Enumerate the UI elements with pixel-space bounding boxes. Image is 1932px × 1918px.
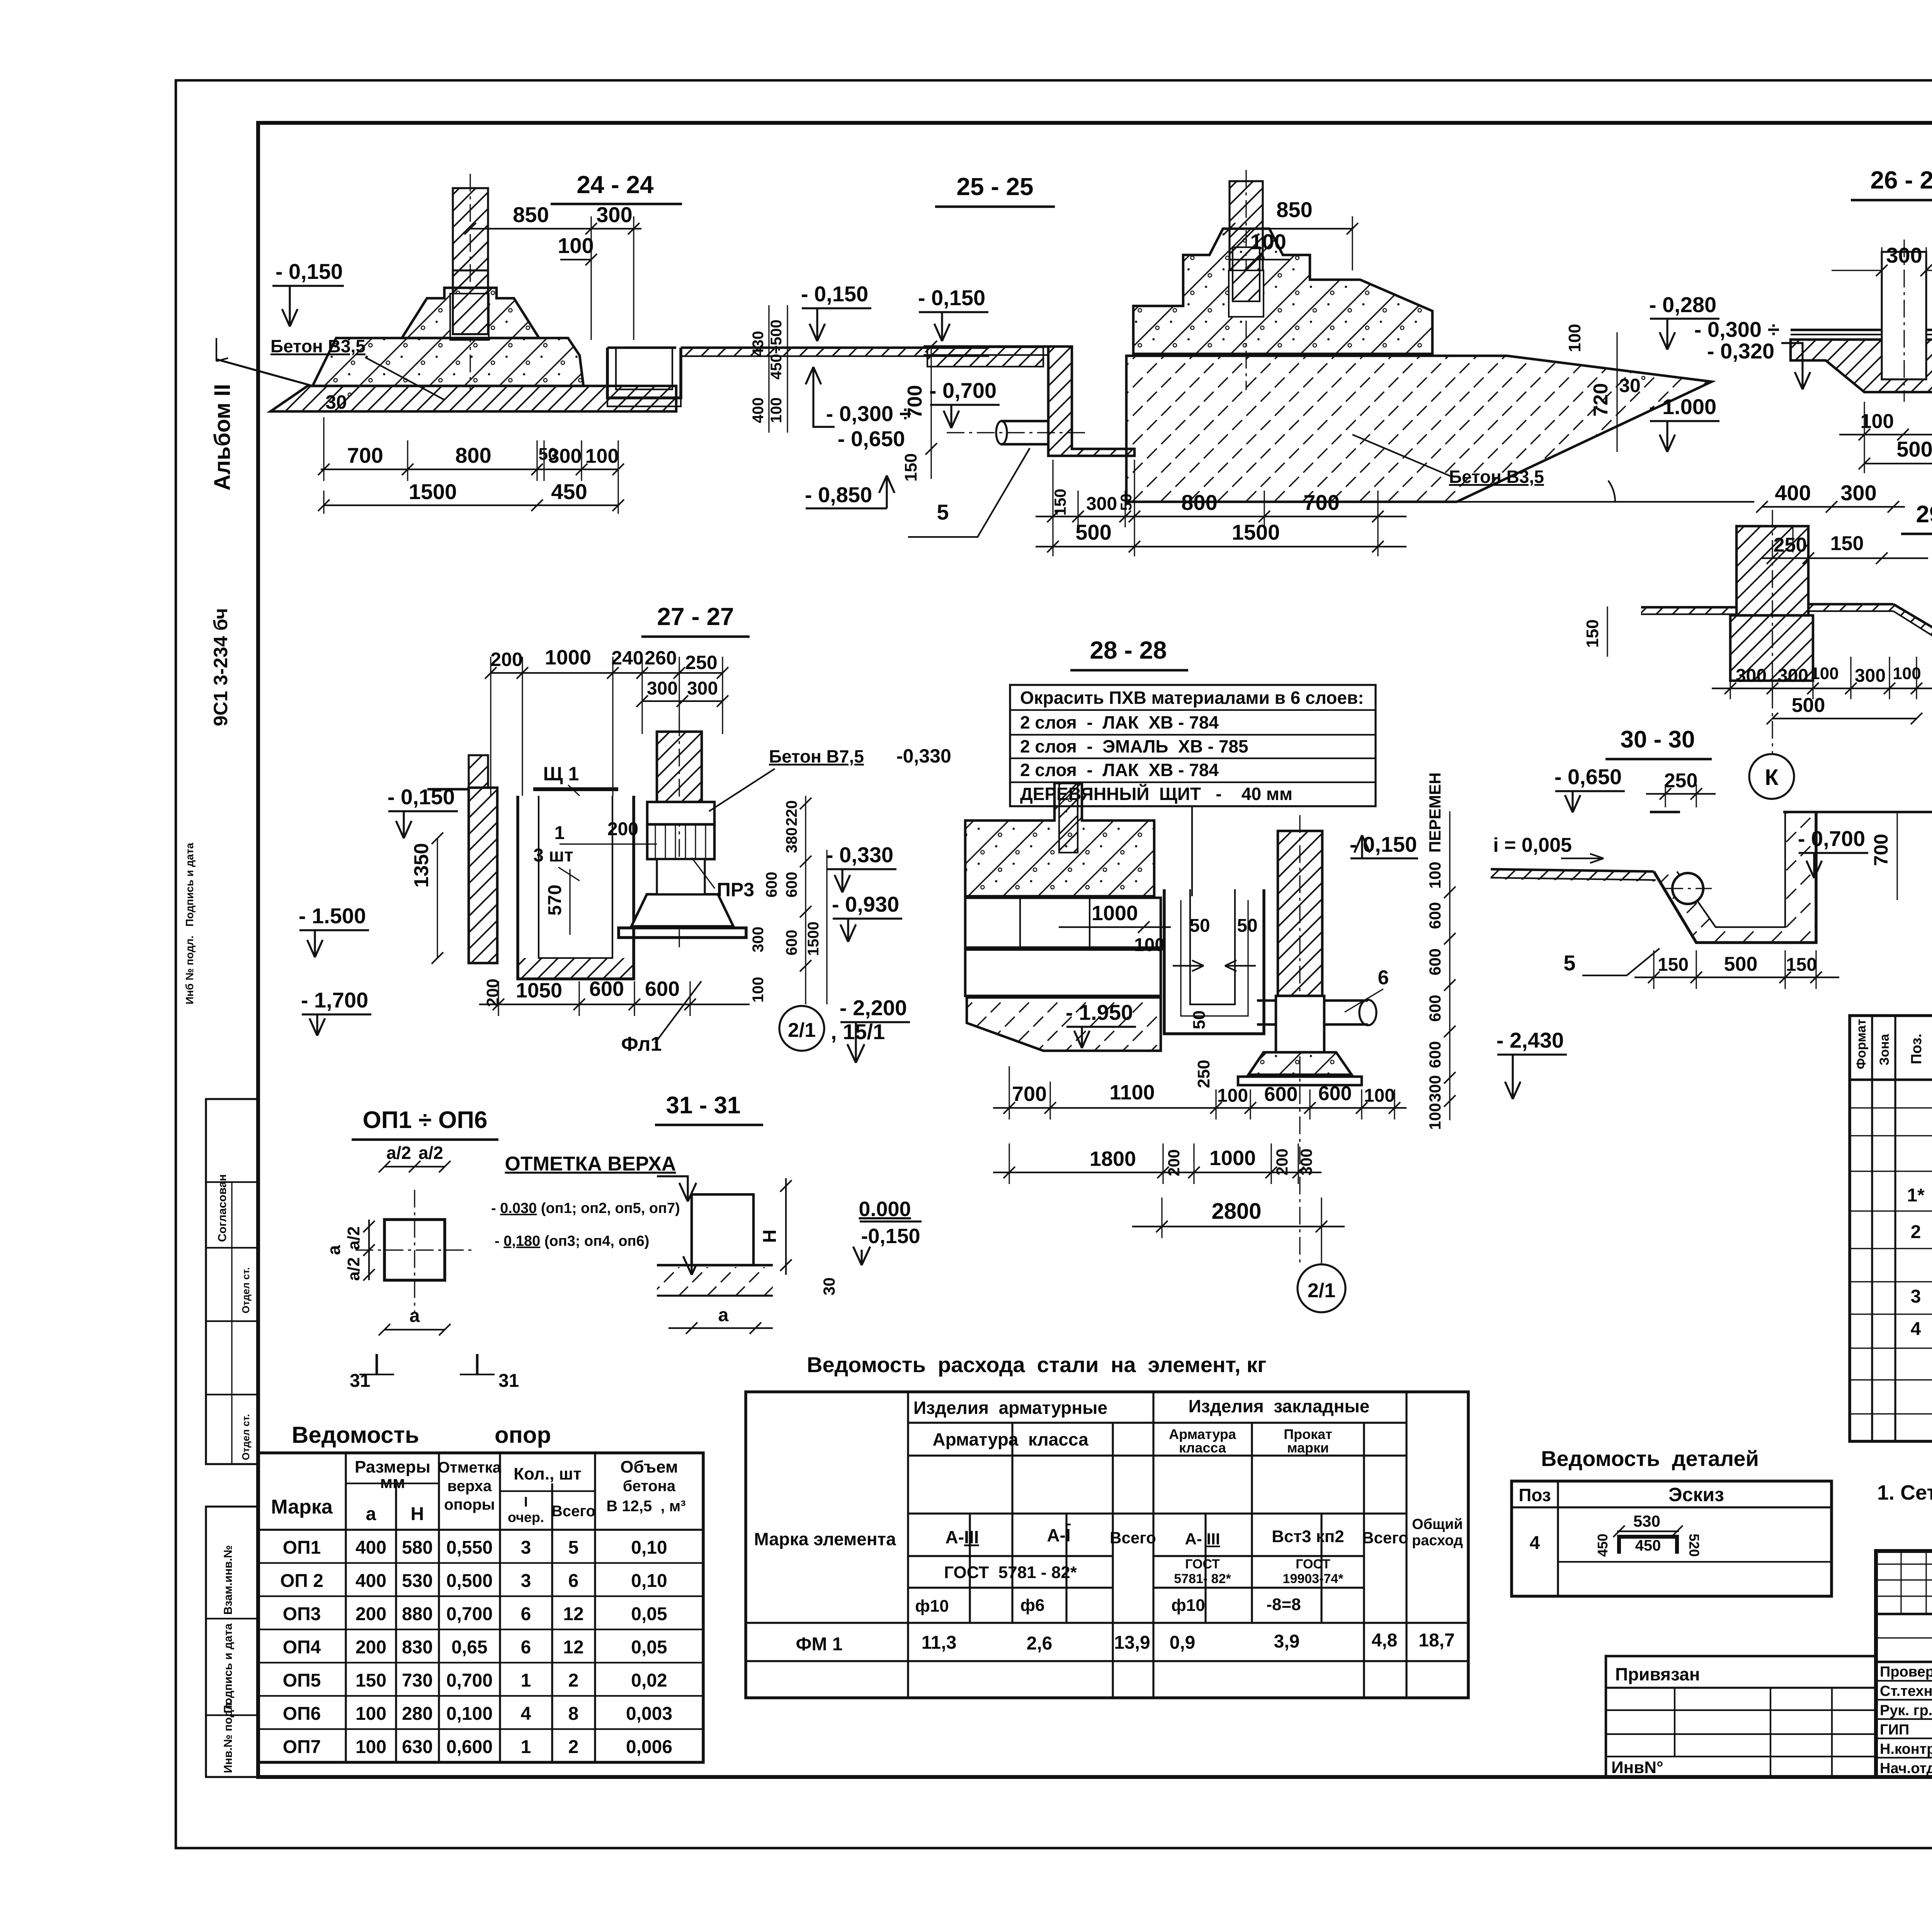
- svg-text:А-I: А-I: [1047, 1525, 1070, 1545]
- svg-text:2: 2: [568, 1670, 579, 1691]
- svg-text:Поз: Поз: [1519, 1485, 1551, 1505]
- svg-text:3: 3: [1911, 1286, 1921, 1307]
- svg-text:a: a: [410, 1306, 420, 1326]
- svg-text:300: 300: [1886, 243, 1922, 267]
- svg-text:260: 260: [645, 647, 677, 669]
- svg-text:Отдел ст.: Отдел ст.: [240, 1267, 252, 1313]
- svg-text:ОП5: ОП5: [283, 1670, 321, 1691]
- svg-text:- 0,650: - 0,650: [1554, 764, 1622, 789]
- svg-text:100: 100: [355, 1737, 386, 1757]
- svg-text:2: 2: [1911, 1222, 1921, 1242]
- svg-text:200: 200: [490, 649, 522, 670]
- svg-text:700: 700: [347, 443, 383, 467]
- svg-text:Инб № подл. Подпись и дата: Инб № подл. Подпись и дата: [184, 843, 196, 1004]
- svg-text:4,8: 4,8: [1372, 1630, 1398, 1651]
- svg-text:- 0,150: - 0,150: [918, 285, 985, 310]
- svg-text:30: 30: [325, 391, 347, 413]
- svg-text:ИнвN°: ИнвN°: [1611, 1758, 1663, 1777]
- svg-text:2,6: 2,6: [1027, 1633, 1053, 1654]
- svg-text:530: 530: [1633, 1512, 1660, 1530]
- svg-text:ОП1 ÷ ОП6: ОП1 ÷ ОП6: [362, 1107, 487, 1133]
- svg-text:0,600: 0,600: [446, 1737, 493, 1757]
- svg-text:0,500: 0,500: [446, 1571, 493, 1591]
- svg-text:600: 600: [1264, 1083, 1298, 1106]
- svg-text:0,10: 0,10: [631, 1537, 667, 1558]
- svg-text:a: a: [718, 1305, 729, 1325]
- svg-text:530: 530: [402, 1571, 433, 1591]
- svg-text:25 - 25: 25 - 25: [956, 173, 1033, 200]
- svg-text:300: 300: [750, 927, 767, 953]
- svg-text:100: 100: [1893, 664, 1921, 683]
- svg-text:300: 300: [1840, 481, 1876, 505]
- svg-text:Бетон В3,5: Бетон В3,5: [270, 336, 366, 356]
- svg-text:600: 600: [763, 872, 780, 898]
- svg-text:Взам.инв.№: Взам.инв.№: [222, 1545, 235, 1615]
- svg-text:5: 5: [937, 500, 949, 524]
- svg-text:Окрасить ПХВ материалами в 6 с: Окрасить ПХВ материалами в 6 слоев:: [1020, 688, 1364, 708]
- svg-text:Вст3 кп2: Вст3 кп2: [1272, 1527, 1344, 1546]
- svg-text:0,65: 0,65: [451, 1637, 487, 1658]
- svg-text:ГОСТ: ГОСТ: [1185, 1557, 1220, 1571]
- svg-text:ф10: ф10: [1171, 1596, 1205, 1615]
- svg-text:- 0,650: - 0,650: [838, 426, 905, 451]
- svg-text:220: 220: [783, 800, 800, 826]
- svg-text:- 0,300 ÷: - 0,300 ÷: [1694, 317, 1780, 341]
- svg-text:Формат: Формат: [1854, 1019, 1869, 1069]
- svg-text:мм: мм: [380, 1473, 405, 1492]
- svg-text:1: 1: [521, 1737, 531, 1757]
- svg-text:Общий: Общий: [1412, 1516, 1463, 1532]
- svg-text:Всего: Всего: [551, 1503, 595, 1520]
- svg-text:720: 720: [1590, 383, 1612, 417]
- svg-text:Эскиз: Эскиз: [1668, 1484, 1724, 1505]
- svg-text:К: К: [1765, 765, 1779, 790]
- svg-text:2 слоя - ЭМАЛЬ ХВ - 785: 2 слоя - ЭМАЛЬ ХВ - 785: [1020, 736, 1248, 756]
- svg-text:280: 280: [402, 1704, 433, 1724]
- svg-text:100: 100: [1250, 229, 1286, 254]
- svg-text:200: 200: [355, 1637, 386, 1658]
- svg-text:Отдел ст.: Отдел ст.: [240, 1414, 252, 1460]
- svg-text:28 - 28: 28 - 28: [1090, 636, 1167, 664]
- svg-text:ОП3: ОП3: [283, 1604, 321, 1624]
- svg-text:расход: расход: [1412, 1532, 1463, 1549]
- svg-text:300: 300: [1736, 666, 1767, 686]
- svg-text:830: 830: [402, 1637, 433, 1658]
- svg-text:850: 850: [513, 202, 549, 227]
- svg-text:100: 100: [355, 1704, 386, 1724]
- svg-text:300: 300: [1855, 666, 1886, 686]
- svg-text:ф6: ф6: [1020, 1596, 1045, 1615]
- svg-text:50: 50: [1190, 1011, 1209, 1030]
- svg-text:1500: 1500: [805, 922, 822, 956]
- svg-text:600: 600: [1426, 995, 1444, 1022]
- svg-text:- 0,330: - 0,330: [826, 843, 893, 867]
- svg-text:1000: 1000: [545, 646, 591, 669]
- svg-text:2800: 2800: [1211, 1199, 1261, 1224]
- svg-text:150: 150: [901, 453, 920, 481]
- svg-text:1: 1: [521, 1670, 531, 1691]
- svg-text:1100: 1100: [1109, 1081, 1155, 1104]
- svg-text:Всего: Всего: [1362, 1529, 1408, 1547]
- svg-text:2/1: 2/1: [1308, 1279, 1335, 1302]
- svg-text:29 - 29: 29 - 29: [1916, 501, 1932, 528]
- svg-text:18,7: 18,7: [1418, 1630, 1454, 1651]
- svg-text:ПР3: ПР3: [717, 879, 754, 900]
- svg-text:200: 200: [1165, 1149, 1183, 1176]
- svg-text:100: 100: [750, 977, 767, 1003]
- svg-text:150: 150: [1786, 955, 1817, 975]
- svg-text:1000: 1000: [1209, 1147, 1256, 1170]
- svg-text:580: 580: [402, 1537, 433, 1558]
- svg-text:i = 0,005: i = 0,005: [1493, 834, 1572, 856]
- svg-text:0,02: 0,02: [631, 1670, 667, 1691]
- svg-text:ОП7: ОП7: [283, 1737, 321, 1757]
- svg-text:a/2: a/2: [418, 1143, 443, 1163]
- svg-text:Ведомость деталей: Ведомость деталей: [1541, 1446, 1759, 1471]
- svg-text:- 0,150: - 0,150: [388, 785, 455, 809]
- svg-text:200: 200: [607, 819, 638, 839]
- svg-text:700: 700: [904, 385, 926, 419]
- svg-text:1*: 1*: [1907, 1185, 1925, 1206]
- svg-text:600: 600: [1426, 902, 1444, 929]
- svg-text:600: 600: [645, 977, 680, 1001]
- svg-text:700: 700: [1012, 1082, 1047, 1106]
- svg-text:1500: 1500: [409, 479, 457, 504]
- svg-text:0,05: 0,05: [631, 1637, 667, 1658]
- svg-text:3,9: 3,9: [1274, 1631, 1300, 1652]
- svg-text:0,700: 0,700: [446, 1604, 493, 1624]
- svg-text:Провер: Провер: [1880, 1664, 1932, 1680]
- svg-text:Ведомость расхода стали на: Ведомость расхода стали на элемент, кг: [807, 1352, 1266, 1377]
- svg-text:a/2: a/2: [344, 1226, 363, 1250]
- svg-text:Н: Н: [760, 1230, 780, 1243]
- svg-text:400: 400: [355, 1537, 386, 1558]
- svg-text:570: 570: [545, 885, 565, 916]
- svg-text:- 0,150: - 0,150: [276, 259, 343, 284]
- svg-text:150: 150: [1830, 532, 1864, 555]
- svg-text:200: 200: [355, 1604, 386, 1624]
- svg-text:800: 800: [1181, 490, 1217, 515]
- svg-text:100: 100: [768, 398, 785, 423]
- svg-text:100: 100: [1565, 324, 1584, 352]
- svg-text:400: 400: [750, 398, 767, 423]
- svg-text:400: 400: [1775, 481, 1811, 505]
- svg-text:30 - 30: 30 - 30: [1620, 726, 1695, 753]
- svg-text:26 - 26: 26 - 26: [1870, 166, 1932, 194]
- svg-text:ГОСТ 5781 - 82*: ГОСТ 5781 - 82*: [944, 1563, 1077, 1582]
- svg-text:Н: Н: [411, 1504, 424, 1524]
- svg-text:500: 500: [1792, 694, 1825, 717]
- svg-text:Бетон В3,5: Бетон В3,5: [1449, 467, 1544, 487]
- svg-text:Отметка: Отметка: [438, 1459, 502, 1476]
- svg-text:- 0,280: - 0,280: [1649, 292, 1716, 317]
- svg-text:Марка: Марка: [271, 1496, 333, 1518]
- svg-text:ф10: ф10: [915, 1597, 949, 1616]
- svg-text:520: 520: [1686, 1534, 1702, 1557]
- svg-text:30: 30: [1619, 375, 1641, 396]
- svg-text:a/2: a/2: [344, 1257, 363, 1281]
- svg-text:а: а: [366, 1504, 376, 1524]
- svg-text:0,003: 0,003: [626, 1704, 672, 1724]
- svg-text:1050: 1050: [516, 979, 562, 1002]
- svg-text:ГОСТ: ГОСТ: [1296, 1557, 1330, 1571]
- svg-text:Ст.техн: Ст.техн: [1880, 1683, 1932, 1699]
- svg-text:°: °: [1641, 374, 1646, 388]
- svg-text:5: 5: [1563, 951, 1575, 975]
- svg-text:0,100: 0,100: [446, 1704, 493, 1724]
- svg-text:Н.контр: Н.контр: [1880, 1741, 1932, 1757]
- svg-text:500: 500: [1075, 520, 1111, 544]
- svg-text:- 2,430: - 2,430: [1497, 1028, 1564, 1052]
- svg-text:500: 500: [1896, 437, 1932, 461]
- svg-text:12: 12: [563, 1604, 583, 1624]
- svg-text:°: °: [347, 390, 352, 405]
- svg-text:4: 4: [1530, 1533, 1540, 1553]
- svg-text:450÷500: 450÷500: [768, 319, 785, 379]
- svg-text:- 1,700: - 1,700: [301, 988, 368, 1012]
- svg-text:24 - 24: 24 - 24: [577, 171, 654, 199]
- svg-text:450: 450: [1595, 1534, 1611, 1557]
- svg-text:ОТМЕТКА ВЕРХА: ОТМЕТКА ВЕРХА: [505, 1153, 676, 1175]
- svg-text:300: 300: [1086, 494, 1117, 514]
- svg-text:ГИП: ГИП: [1880, 1722, 1909, 1738]
- svg-text:В 12,5 , м³: В 12,5 , м³: [606, 1498, 685, 1515]
- svg-text:2 слоя - ЛАК ХВ - 784: 2 слоя - ЛАК ХВ - 784: [1020, 760, 1219, 780]
- svg-text:1350: 1350: [410, 843, 433, 888]
- svg-text:6: 6: [568, 1571, 579, 1591]
- svg-text:600: 600: [783, 872, 800, 898]
- svg-text:- 0,930: - 0,930: [832, 892, 899, 916]
- svg-text:ОП 2: ОП 2: [280, 1571, 323, 1591]
- svg-text:4: 4: [521, 1704, 531, 1724]
- svg-text:ОП1: ОП1: [283, 1537, 321, 1558]
- svg-text:6: 6: [1378, 967, 1389, 989]
- svg-text:8: 8: [568, 1704, 579, 1724]
- svg-text:30: 30: [820, 1278, 838, 1296]
- svg-text:бетона: бетона: [623, 1478, 676, 1495]
- svg-text:100: 100: [1217, 1086, 1248, 1106]
- svg-text:300: 300: [596, 202, 632, 227]
- svg-text:0,006: 0,006: [626, 1737, 672, 1757]
- svg-text:5: 5: [568, 1537, 579, 1558]
- svg-text:100 ПЕРЕМЕН: 100 ПЕРЕМЕН: [1426, 773, 1444, 889]
- svg-text:3: 3: [521, 1571, 531, 1591]
- svg-text:Кол., шт: Кол., шт: [514, 1464, 581, 1483]
- svg-text:300: 300: [548, 445, 582, 467]
- svg-text:450: 450: [551, 479, 587, 504]
- svg-text:5781- 82*: 5781- 82*: [1174, 1571, 1231, 1586]
- svg-text:1. Сетку арматурную поз. 1*: 1. Сетку арматурную поз. 1* готовить по …: [1877, 1481, 1932, 1504]
- svg-text:- 0,700: - 0,700: [929, 378, 997, 403]
- svg-text:31 - 31: 31 - 31: [666, 1092, 740, 1119]
- svg-text:верха: верха: [447, 1478, 492, 1495]
- svg-text:марки: марки: [1287, 1440, 1329, 1456]
- svg-text:-0,330: -0,330: [896, 745, 951, 767]
- svg-text:630: 630: [402, 1737, 433, 1757]
- svg-text:600: 600: [1426, 1041, 1444, 1068]
- svg-text:13,9: 13,9: [1114, 1633, 1150, 1653]
- svg-text:Всего: Всего: [1110, 1529, 1156, 1547]
- svg-text:А- III: А- III: [1185, 1530, 1220, 1548]
- svg-text:- 0.030 (оп1; оп2, оп5, оп7): - 0.030 (оп1; оп2, оп5, оп7): [491, 1200, 680, 1216]
- svg-text:100: 100: [1810, 664, 1838, 683]
- svg-text:a/2: a/2: [386, 1143, 411, 1163]
- svg-text:850: 850: [1276, 197, 1312, 222]
- svg-text:3 шт: 3 шт: [533, 845, 573, 866]
- svg-text:Нач.отд: Нач.отд: [1880, 1760, 1932, 1777]
- svg-text:9С1 3-234 бч: 9С1 3-234 бч: [210, 608, 231, 726]
- svg-text:730: 730: [402, 1670, 433, 1691]
- svg-text:0.000: 0.000: [859, 1198, 911, 1221]
- svg-text:250: 250: [1774, 534, 1807, 556]
- svg-text:0,550: 0,550: [446, 1537, 493, 1558]
- svg-text:1800: 1800: [1090, 1147, 1136, 1171]
- svg-text:- 0,180 (оп3; оп4, оп6): - 0,180 (оп3; оп4, оп6): [495, 1233, 649, 1249]
- svg-text:100: 100: [558, 233, 594, 258]
- svg-text:4: 4: [1911, 1319, 1921, 1339]
- svg-text:240: 240: [611, 647, 643, 669]
- svg-text:Объем: Объем: [620, 1458, 678, 1476]
- svg-text:ОП4: ОП4: [283, 1637, 321, 1658]
- svg-text:31: 31: [498, 1371, 519, 1391]
- svg-text:0,05: 0,05: [631, 1604, 667, 1624]
- svg-text:800: 800: [455, 443, 491, 467]
- svg-text:300: 300: [647, 678, 678, 699]
- svg-text:Согласован: Согласован: [216, 1174, 229, 1242]
- svg-text:300: 300: [1426, 1075, 1444, 1102]
- svg-text:1000: 1000: [1092, 902, 1138, 925]
- svg-text:300: 300: [1297, 1148, 1315, 1176]
- svg-text:300: 300: [687, 678, 718, 699]
- svg-text:27 - 27: 27 - 27: [657, 603, 734, 630]
- svg-text:300: 300: [1777, 666, 1808, 686]
- svg-text:250: 250: [1194, 1060, 1213, 1088]
- svg-text:2/1: 2/1: [788, 1019, 816, 1041]
- svg-text:1500: 1500: [1232, 520, 1280, 544]
- svg-text:Инв.№ подл.: Инв.№ подл.: [222, 1699, 235, 1773]
- svg-text:6: 6: [521, 1637, 531, 1658]
- svg-text:150: 150: [1583, 619, 1602, 647]
- svg-text:a: a: [324, 1245, 344, 1255]
- svg-text:опоры: опоры: [444, 1496, 495, 1513]
- svg-text:- 0,850: - 0,850: [805, 482, 872, 507]
- svg-text:880: 880: [402, 1604, 433, 1624]
- svg-text:- 1.500: - 1.500: [299, 904, 366, 928]
- svg-text:Альбом II: Альбом II: [210, 384, 235, 491]
- svg-text:Изделия закладные: Изделия закладные: [1189, 1396, 1370, 1416]
- svg-text:250: 250: [685, 652, 717, 673]
- svg-text:2 слоя - ЛАК ХВ - 784: 2 слоя - ЛАК ХВ - 784: [1020, 712, 1219, 732]
- svg-text:- 1.000: - 1.000: [1649, 394, 1716, 419]
- svg-text:31: 31: [350, 1371, 370, 1391]
- svg-text:0,10: 0,10: [631, 1571, 667, 1591]
- svg-text:- 0,700: - 0,700: [1798, 826, 1865, 851]
- svg-text:-0,150: -0,150: [861, 1225, 920, 1248]
- svg-text:- 0,150: - 0,150: [801, 282, 868, 306]
- svg-text:Поз.: Поз.: [1908, 1034, 1925, 1064]
- svg-text:50: 50: [1237, 916, 1257, 936]
- svg-text:2: 2: [568, 1737, 579, 1757]
- svg-text:400: 400: [355, 1571, 386, 1591]
- svg-text:- 1.950: - 1.950: [1066, 1000, 1133, 1024]
- svg-text:класса: класса: [1179, 1440, 1226, 1456]
- svg-text:Привязан: Привязан: [1615, 1664, 1700, 1684]
- svg-text:очер.: очер.: [508, 1509, 544, 1525]
- svg-text:Бетон В7,5: Бетон В7,5: [769, 746, 864, 766]
- svg-text:Марка элемента: Марка элемента: [754, 1529, 896, 1549]
- svg-text:1: 1: [554, 823, 565, 843]
- svg-text:250: 250: [1664, 770, 1698, 792]
- svg-text:12: 12: [563, 1637, 583, 1658]
- svg-text:600: 600: [1318, 1082, 1352, 1105]
- svg-text:-8=8: -8=8: [1266, 1595, 1301, 1614]
- svg-text:I: I: [524, 1494, 528, 1510]
- svg-text:Рук. гр.: Рук. гр.: [1880, 1702, 1932, 1719]
- svg-text:700: 700: [1870, 834, 1892, 866]
- svg-text:600: 600: [589, 977, 624, 1001]
- svg-text:600: 600: [1426, 948, 1444, 975]
- svg-text:19903-74*: 19903-74*: [1283, 1571, 1344, 1586]
- svg-text:100: 100: [1861, 410, 1894, 433]
- svg-text:600: 600: [783, 930, 800, 956]
- svg-text:0,700: 0,700: [446, 1670, 493, 1691]
- svg-text:150: 150: [355, 1670, 386, 1691]
- svg-text:опор: опор: [495, 1422, 551, 1448]
- svg-text:Зона: Зона: [1877, 1033, 1892, 1065]
- svg-text:150: 150: [1051, 489, 1069, 516]
- svg-text:3: 3: [521, 1537, 531, 1558]
- svg-text:450: 450: [1635, 1537, 1661, 1554]
- svg-text:6: 6: [521, 1604, 531, 1624]
- svg-text:150: 150: [1658, 955, 1689, 975]
- svg-text:11,3: 11,3: [922, 1633, 957, 1653]
- svg-text:100: 100: [585, 445, 619, 467]
- svg-text:100: 100: [1364, 1086, 1395, 1106]
- svg-text:50: 50: [1118, 494, 1135, 511]
- svg-text:430: 430: [750, 331, 767, 357]
- svg-text:100: 100: [1134, 935, 1165, 955]
- svg-text:- 0,150: - 0,150: [1350, 832, 1417, 856]
- svg-text:Щ 1: Щ 1: [543, 763, 579, 785]
- svg-text:- 2,200: - 2,200: [840, 996, 907, 1020]
- svg-text:500: 500: [1724, 953, 1758, 975]
- svg-text:А-III: А-III: [946, 1527, 979, 1547]
- svg-text:Арматура класса: Арматура класса: [932, 1429, 1088, 1449]
- svg-text:- 0,320: - 0,320: [1707, 339, 1774, 363]
- svg-text:Изделия арматурные: Изделия арматурные: [913, 1398, 1107, 1418]
- svg-text:Ведомость: Ведомость: [292, 1422, 419, 1448]
- svg-text:- 0,300 ÷: - 0,300 ÷: [826, 401, 912, 426]
- svg-text:700: 700: [1303, 490, 1339, 515]
- svg-text:380: 380: [783, 827, 800, 853]
- svg-text:ФМ 1: ФМ 1: [796, 1634, 843, 1655]
- svg-text:Фл1: Фл1: [621, 1033, 662, 1055]
- svg-text:200: 200: [1273, 1148, 1291, 1176]
- svg-text:50: 50: [1189, 916, 1210, 936]
- svg-text:100: 100: [1426, 1103, 1444, 1130]
- svg-text:0,9: 0,9: [1170, 1633, 1196, 1653]
- svg-text:ОП6: ОП6: [283, 1704, 321, 1724]
